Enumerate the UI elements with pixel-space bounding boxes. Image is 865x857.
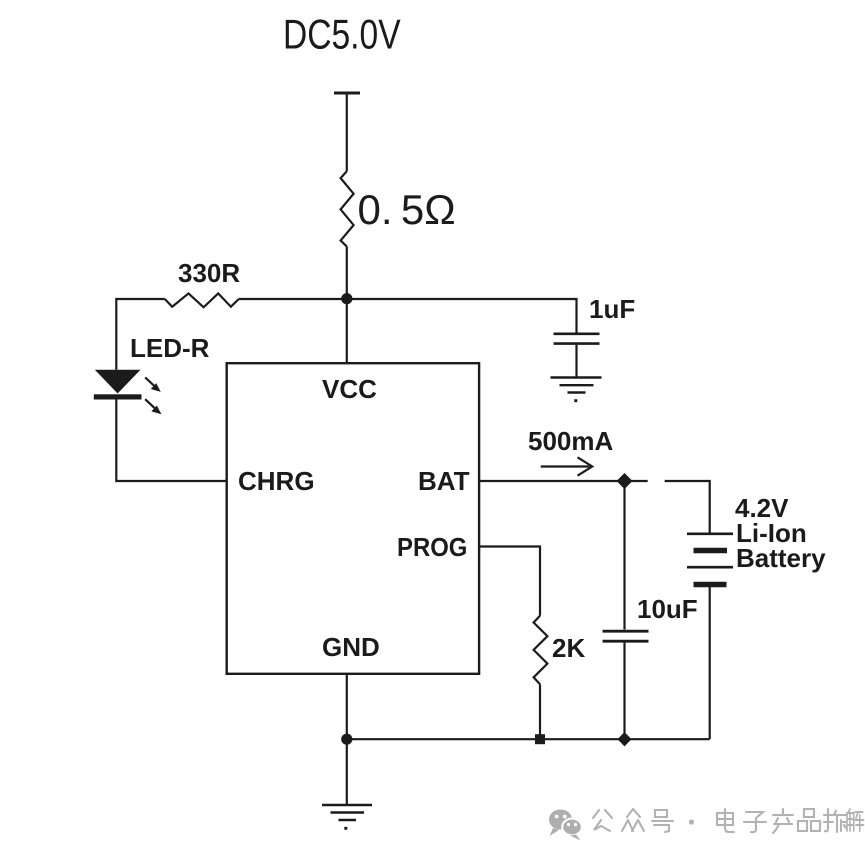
battery BT1 plates [687,534,733,585]
svg-text:BAT: BAT [418,466,470,496]
label VCC pin [322,374,377,404]
wire VCC node to U1 VCC pin [346,299,348,363]
label 0.5 ohm [358,186,456,233]
capacitor C1 1uF plates [554,334,600,344]
svg-text:330R: 330R [178,258,240,288]
wire from supply terminal to R 0.5ohm [346,93,348,171]
label LED-R [130,333,210,363]
svg-text:PROG: PROG [397,533,467,562]
svg-text:DC5.0V: DC5.0V [283,12,401,58]
svg-text:CHRG: CHRG [238,466,315,496]
svg-text:GND: GND [322,632,380,662]
LED emission arrow 1 [145,377,161,392]
op-amp U1 charger IC body [227,363,479,674]
svg-text:500mA: 500mA [528,426,613,456]
resistor 330R zigzag [165,293,239,307]
wire battery connector segment [665,481,710,533]
resistor 0.5ohm zigzag [341,171,354,246]
wire C2 to bottom rail [623,643,625,740]
label GND pin [322,632,380,662]
label PROG pin [397,533,467,562]
current arrow 500mA [541,457,593,475]
LED emission arrow 2 [145,399,161,414]
label 1uF [589,294,635,324]
wire battery negative to bottom rail [709,587,711,739]
node DC5.0V supply terminal [334,92,360,95]
capacitor C2 10uF plates [603,631,649,641]
wire U1 BAT pin to BAT node [479,480,648,482]
label 330R [178,258,240,288]
label 2K [552,633,585,663]
svg-text:2K: 2K [552,633,585,663]
wire U1 PROG pin to 2K resistor [479,547,540,616]
watermark text gongzhonghao dianzi chanpin chaijie [593,809,864,833]
node 10uF rail junction dot [618,732,632,746]
node BAT junction dot [617,473,633,489]
wire 2K to bottom rail [539,684,541,739]
wire U1 GND pin to bottom rail [346,674,348,739]
LED D1 anode triangle [95,370,141,394]
label Li-Ion [736,518,807,548]
watermark wechat icon [549,810,582,841]
wire BAT node down to C2 10uF [623,481,625,630]
wire 330R to left corner [116,299,165,370]
label 500mA [528,426,613,456]
wire rail to main ground [346,739,348,805]
LED D1 cathode bar [94,394,142,399]
ground for C1 [551,378,602,403]
label 10uF [637,594,698,624]
node VCC junction dot [341,293,352,304]
wire VCC node to 1uF capacitor [347,299,577,333]
svg-text:0. 5Ω: 0. 5Ω [358,186,456,233]
wire bottom ground rail [347,738,710,740]
svg-text:Battery: Battery [736,543,826,573]
label BAT pin [418,466,470,496]
label Battery [736,543,826,573]
svg-text:LED-R: LED-R [130,333,210,363]
label 4.2V [735,493,789,523]
wire VCC node to 330R [239,298,347,300]
label CHRG pin [238,466,315,496]
wire LED cathode down to CHRG [116,400,226,482]
svg-text:10uF: 10uF [637,594,698,624]
wire C1 to ground [575,345,577,377]
label DC5.0V [283,12,401,58]
wire from R 0.5ohm to VCC node [346,246,348,299]
svg-text:1uF: 1uF [589,294,635,324]
svg-text:VCC: VCC [322,374,377,404]
node 2K rail junction dot [535,734,545,744]
node GND junction dot left [341,734,352,745]
resistor R2 2K zigzag [534,616,548,684]
ground main symbol [322,805,372,830]
